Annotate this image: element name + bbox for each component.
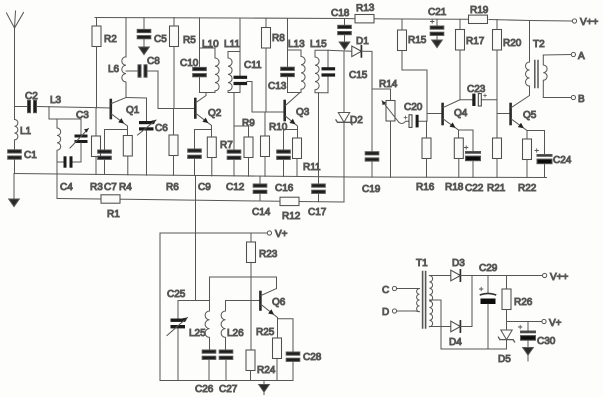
resistor R14 variable — [379, 79, 399, 177]
svg-text:Q1: Q1 — [126, 105, 140, 116]
wire oscillator bottom rail — [160, 380, 293, 382]
node V+ oscillator supply — [160, 229, 288, 240]
wire R15 to Q4 base — [427, 70, 442, 121]
capacitor C1 — [8, 150, 38, 174]
svg-text:C17: C17 — [308, 207, 327, 218]
capacitor C27 — [219, 350, 238, 395]
resistor R5 — [170, 18, 197, 109]
resistor R9 — [242, 118, 255, 176]
node V++ terminal psu — [543, 272, 569, 283]
svg-text:D4: D4 — [449, 337, 462, 348]
node C input terminal — [382, 285, 415, 296]
svg-text:V+: V+ — [549, 318, 562, 329]
svg-text:R9: R9 — [242, 118, 255, 129]
node D input terminal — [382, 307, 415, 318]
svg-text:C21: C21 — [428, 7, 447, 18]
wire oscillator left side — [159, 233, 161, 381]
wire bus to oscillator — [195, 176, 197, 301]
wire psu common rail — [441, 348, 507, 350]
inductor L1 — [15, 107, 32, 150]
diode D5 zener — [498, 322, 515, 366]
svg-text:T1: T1 — [416, 258, 428, 269]
svg-text:C13: C13 — [268, 81, 287, 92]
svg-text:C30: C30 — [537, 336, 556, 347]
node A terminal — [543, 51, 585, 62]
svg-text:R24: R24 — [257, 365, 276, 376]
svg-text:L10: L10 — [202, 39, 219, 50]
svg-text:T2: T2 — [533, 39, 545, 50]
svg-text:R10: R10 — [269, 122, 288, 133]
diode D4 — [449, 321, 462, 348]
inductor L11 tank — [224, 39, 240, 93]
svg-text:Q3: Q3 — [296, 107, 310, 118]
diode D3 — [451, 258, 465, 281]
svg-text:L6: L6 — [108, 64, 120, 75]
resistor R7 — [207, 137, 233, 176]
resistor R11 — [293, 138, 322, 177]
svg-text:C24: C24 — [553, 155, 572, 166]
wire D1 cathode to R14 top — [361, 51, 390, 100]
capacitor C21 — [428, 7, 447, 48]
svg-text:R8: R8 — [272, 33, 285, 44]
svg-text:R16: R16 — [416, 182, 435, 193]
svg-text:C9: C9 — [198, 182, 211, 193]
inductor L6 — [108, 18, 126, 98]
svg-text:C2: C2 — [25, 91, 38, 102]
inductor antenna coil — [57, 119, 61, 162]
svg-text:V++: V++ — [550, 272, 569, 283]
svg-text:C18: C18 — [331, 8, 350, 19]
svg-text:R13: R13 — [356, 3, 375, 15]
resistor R6 — [166, 109, 179, 194]
svg-text:Q2: Q2 — [208, 108, 222, 119]
svg-text:C19: C19 — [362, 184, 381, 195]
wire tank bottom to R9 and C12 — [234, 93, 249, 151]
resistor R25 — [256, 319, 282, 381]
svg-text:R5: R5 — [183, 35, 196, 46]
svg-text:C28: C28 — [303, 352, 322, 363]
svg-text:R4: R4 — [119, 182, 132, 193]
capacitor C19 — [362, 89, 381, 195]
resistor R2 — [92, 18, 117, 109]
svg-text:C29: C29 — [479, 263, 498, 274]
svg-text:C4: C4 — [60, 182, 73, 193]
ground oscillator — [259, 381, 270, 395]
svg-text:L13: L13 — [288, 39, 305, 50]
capacitor C16 — [275, 130, 294, 195]
resistor R10 — [261, 112, 288, 176]
svg-text:D3: D3 — [452, 258, 465, 269]
resistor R13 — [355, 3, 375, 23]
resistor R16 — [416, 121, 435, 193]
svg-text:R23: R23 — [259, 249, 278, 260]
capacitor C12 — [226, 150, 245, 193]
svg-text:L25: L25 — [189, 328, 206, 339]
wire C25 to L25 — [178, 300, 210, 302]
wire L15 to D1 anode — [328, 49, 352, 52]
resistor R20 — [493, 20, 522, 100]
svg-text:C5: C5 — [154, 34, 167, 45]
capacitor C2 — [15, 91, 50, 113]
antenna — [7, 11, 24, 107]
svg-text:R2: R2 — [104, 34, 117, 45]
svg-text:R15: R15 — [408, 35, 427, 46]
inductor L26 — [221, 301, 244, 350]
capacitor C13 tank — [268, 19, 294, 93]
svg-text:R20: R20 — [503, 38, 522, 49]
wire L15 tank to ground bus — [318, 93, 320, 177]
svg-text:C26: C26 — [195, 384, 214, 395]
ground earth left — [9, 174, 20, 207]
capacitor C10 tank — [180, 18, 206, 93]
svg-text:R25: R25 — [256, 327, 275, 338]
resistor R24 — [246, 350, 276, 381]
svg-text:R7: R7 — [220, 140, 233, 151]
capacitor C30 electrolytic — [519, 322, 556, 348]
svg-text:R21: R21 — [487, 183, 506, 194]
svg-text:R12: R12 — [282, 211, 301, 222]
wire C11 tap to Q3 base — [247, 82, 284, 113]
resistor R17 — [456, 19, 485, 99]
transistor Q5 — [511, 87, 537, 139]
capacitor C8 — [126, 56, 160, 77]
resistor R12 — [280, 197, 301, 222]
svg-text:R11: R11 — [303, 162, 321, 173]
svg-text:D5: D5 — [498, 354, 511, 365]
resistor R26 — [502, 276, 533, 322]
capacitor C7 — [98, 130, 118, 194]
svg-text:R14: R14 — [379, 79, 398, 90]
wire R23 to R24 — [250, 277, 252, 350]
svg-text:Q6: Q6 — [272, 297, 286, 308]
svg-text:L1: L1 — [20, 126, 32, 137]
capacitor C29 electrolytic — [479, 263, 498, 349]
capacitor C18 — [331, 8, 351, 50]
svg-text:L26: L26 — [227, 328, 244, 339]
wire V+ psu — [507, 321, 542, 323]
capacitor C3 trimmer — [70, 110, 89, 162]
node V+ terminal psu — [542, 318, 562, 329]
svg-text:C8: C8 — [147, 56, 160, 67]
transistor Q4 — [443, 100, 468, 138]
resistor R19 — [469, 5, 489, 24]
wire Q1 emitter node — [105, 129, 128, 131]
resistor R1 — [101, 195, 120, 220]
wire Q3 emitter node — [284, 129, 298, 131]
svg-text:C11: C11 — [244, 60, 262, 71]
svg-text:R3: R3 — [90, 182, 103, 193]
svg-text:C22: C22 — [465, 183, 484, 194]
node B terminal — [543, 94, 585, 105]
transistor Q6 — [260, 289, 285, 319]
capacitor C26 — [195, 350, 216, 395]
capacitor C28 — [278, 319, 322, 381]
capacitor C25 trimmer — [167, 289, 188, 381]
capacitor C22 electrolytic — [459, 130, 484, 194]
inductor L25 — [189, 311, 210, 350]
diode D1 — [352, 36, 369, 57]
wire tank to lower bus — [56, 162, 58, 199]
wire Q6 base — [226, 300, 261, 302]
wire input tank top — [49, 107, 81, 119]
resistor R18 — [445, 138, 464, 193]
capacitor C11 tank — [234, 18, 263, 93]
wire lower return bus — [57, 199, 344, 203]
svg-text:C1: C1 — [24, 150, 37, 161]
svg-text:C14: C14 — [252, 207, 271, 218]
svg-text:D1: D1 — [356, 36, 369, 47]
node L3 label — [49, 95, 110, 108]
svg-text:V+: V+ — [275, 229, 288, 240]
svg-text:C6: C6 — [155, 123, 168, 134]
capacitor C24 electrolytic — [527, 131, 572, 178]
svg-text:C10: C10 — [180, 58, 199, 69]
wire Q2 emitter node — [195, 129, 212, 131]
svg-text:C3: C3 — [76, 110, 89, 121]
inductor L13 tank — [288, 39, 306, 93]
svg-text:B: B — [578, 94, 585, 105]
svg-text:A: A — [578, 51, 585, 62]
resistor R3 — [90, 108, 103, 193]
resistor R21 — [487, 100, 510, 194]
svg-text:Q5: Q5 — [523, 110, 537, 121]
svg-text:C7: C7 — [104, 182, 117, 193]
svg-text:L15: L15 — [310, 39, 327, 50]
capacitor C14 — [252, 176, 271, 218]
resistor R15 — [398, 19, 428, 70]
resistor R23 — [247, 233, 278, 277]
capacitor C20 — [399, 102, 427, 127]
wire C8 to Q2 base — [158, 71, 195, 109]
svg-text:V++: V++ — [580, 17, 599, 28]
svg-text:L11: L11 — [224, 39, 240, 50]
svg-text:C23: C23 — [467, 84, 486, 95]
svg-text:R1: R1 — [107, 209, 120, 220]
svg-text:R26: R26 — [514, 297, 533, 308]
transistor Q1 — [111, 98, 140, 130]
capacitor C5 — [137, 18, 167, 55]
capacitor C4 inline — [57, 156, 81, 193]
svg-text:C12: C12 — [226, 182, 245, 193]
transistor Q2 — [195, 93, 221, 138]
svg-text:R6: R6 — [166, 182, 179, 193]
resistor R22 — [518, 139, 537, 194]
svg-text:R18: R18 — [445, 182, 464, 193]
svg-text:C16: C16 — [275, 183, 294, 194]
wire secondary taps — [429, 276, 450, 350]
diode D2 zener — [336, 51, 363, 202]
wire R23 node to L25 and Q6 collector — [210, 277, 277, 311]
svg-text:L3: L3 — [50, 95, 62, 106]
node V++ terminal top — [572, 17, 598, 28]
svg-text:R19: R19 — [470, 5, 489, 16]
svg-text:C27: C27 — [219, 384, 238, 395]
inductor L15 tank — [310, 39, 328, 93]
wire rectifier output — [460, 276, 542, 327]
inductor L10 tank — [200, 39, 220, 93]
svg-text:C: C — [382, 285, 389, 296]
svg-text:C15: C15 — [349, 70, 368, 81]
wire ground bus main — [14, 174, 547, 178]
transformer T1 — [415, 258, 433, 328]
wire top supply rail — [95, 18, 355, 19]
svg-text:R22: R22 — [518, 183, 537, 194]
svg-text:C20: C20 — [404, 102, 423, 113]
capacitor C17 — [308, 177, 327, 218]
svg-text:Q4: Q4 — [454, 108, 468, 119]
svg-text:C25: C25 — [167, 289, 186, 300]
resistor R4 — [119, 130, 132, 194]
svg-text:D: D — [382, 307, 389, 318]
transistor Q3 — [285, 93, 310, 138]
transformer T2 — [526, 21, 548, 98]
resistor R8 — [262, 18, 286, 112]
capacitor C23 — [460, 84, 497, 106]
capacitor C15 tank — [322, 50, 368, 92]
svg-text:R17: R17 — [466, 36, 485, 47]
capacitor C9 — [188, 130, 212, 194]
svg-text:D2: D2 — [350, 115, 363, 126]
ground psu — [523, 348, 534, 362]
capacitor C6 trimmer — [126, 98, 168, 176]
